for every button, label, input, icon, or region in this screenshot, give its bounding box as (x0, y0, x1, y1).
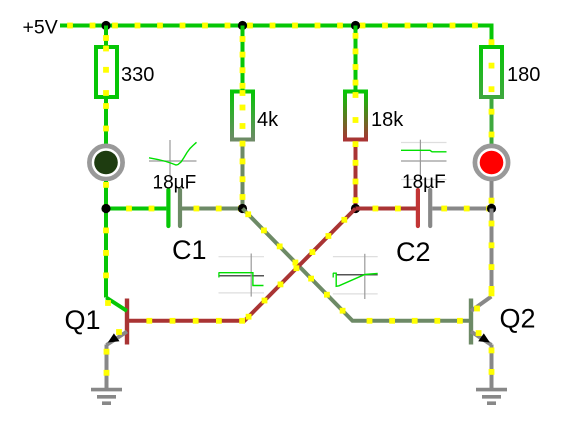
junction top rail node 2 (238, 21, 247, 30)
label C2 value 18µF (402, 172, 446, 193)
capacitor C1 (168, 190, 180, 226)
wire C1 to node B (182, 206, 244, 212)
svg-text:C2: C2 (396, 237, 431, 267)
ground right (476, 390, 507, 404)
label Q1 (65, 305, 101, 335)
wire node A to C1 (106, 206, 166, 212)
label C1 value 18µF (153, 173, 197, 194)
junction top rail node 3 (351, 21, 360, 30)
svg-text:330: 330 (121, 64, 154, 86)
wire C2 to node D (432, 206, 492, 212)
wire rail to R1 (103, 26, 109, 48)
wire node D to Q2 collector (489, 209, 495, 297)
wire LED D2 to node D (489, 181, 495, 209)
junction top rail node 1 (101, 21, 110, 30)
wire node C diagonal to Q1 base (129, 209, 356, 324)
label C2 (396, 237, 431, 267)
resistor R2 4k (232, 90, 253, 139)
junction node D (487, 204, 496, 213)
ground left (91, 390, 122, 404)
resistor R4 180 (481, 47, 502, 97)
wire rail corner to R4 (489, 24, 495, 48)
label R3 value 18k (371, 109, 404, 131)
scope trace Q1 collector (lower left graph) (219, 254, 265, 297)
svg-text:180: 180 (507, 64, 540, 86)
label R4 value 180 (507, 64, 540, 86)
wire Q1 emitter to ground (104, 345, 110, 389)
scope trace Q2 collector (lower right graph) (333, 254, 378, 299)
label C1 (172, 235, 207, 265)
wire LED D1 to node A (103, 181, 109, 210)
transistor Q2 (471, 291, 494, 346)
resistor R3 18k (345, 92, 366, 140)
transistor Q1 (105, 298, 127, 346)
svg-text:C1: C1 (172, 235, 207, 265)
wire R4 to LED D2 (489, 97, 495, 144)
wire node A to Q1 collector (103, 209, 109, 298)
capacitor C2 (418, 190, 430, 226)
scope trace C2 (top right graph) (401, 140, 447, 184)
wire Q2 emitter to ground (489, 345, 495, 389)
junction node B (238, 204, 247, 213)
wire rail to R2 (240, 26, 246, 92)
svg-text:18µF: 18µF (153, 173, 197, 194)
resistor R1 330 (96, 46, 117, 97)
svg-text:18µF: 18µF (402, 172, 446, 193)
node +5V label (23, 17, 58, 39)
svg-text:Q1: Q1 (65, 305, 101, 335)
label Q2 (500, 304, 536, 334)
svg-text:18k: 18k (371, 109, 404, 131)
junction node A (101, 204, 110, 213)
wire +5V top rail (60, 23, 492, 29)
svg-text:+5V: +5V (23, 17, 58, 39)
wire node B diagonal to Q2 base (243, 209, 470, 324)
wire R2 to node B (240, 140, 246, 209)
wire R1 to LED D1 (103, 97, 109, 144)
LED D2 (on, red) (475, 146, 508, 179)
LED D1 (off, dark) (89, 146, 122, 179)
svg-text:Q2: Q2 (500, 304, 536, 334)
label R2 value 4k (257, 109, 279, 131)
scope trace C1 (top left graph) (149, 140, 197, 178)
junction node C (351, 204, 360, 213)
svg-text:4k: 4k (257, 109, 279, 131)
label R1 value 330 (121, 64, 154, 86)
wire R3 to node C (353, 140, 359, 209)
wire rail to R3 (353, 26, 359, 92)
wire node C to C2 (356, 206, 417, 212)
